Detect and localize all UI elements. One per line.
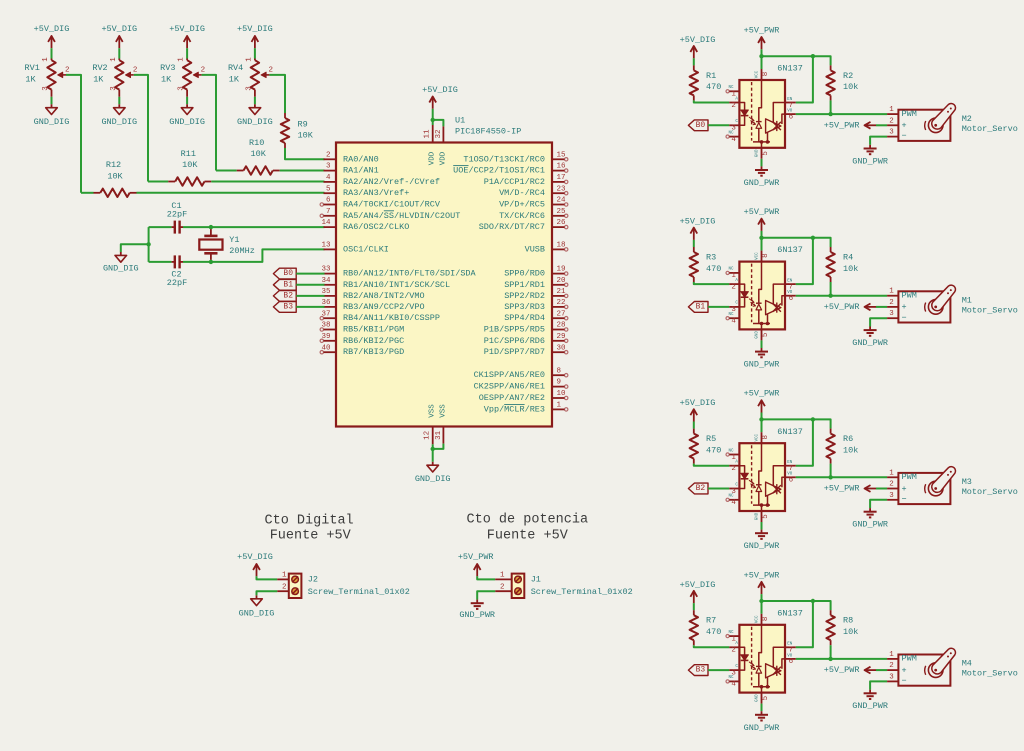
svg-text:CK1SPP/AN5/RE0: CK1SPP/AN5/RE0 [474,370,545,380]
svg-text:GND: GND [755,149,759,157]
svg-text:470: 470 [706,627,721,637]
wire [796,658,887,660]
wire [118,48,120,58]
svg-text:R7: R7 [706,616,716,626]
wire [66,75,81,193]
svg-text:VM/D-/RC4: VM/D-/RC4 [499,188,545,198]
wire [257,591,278,595]
svg-text:U1: U1 [455,115,465,125]
U1 pin 10 OESPP/AN7/RE2 [479,390,568,403]
svg-text:VCC: VCC [755,70,759,78]
svg-text:GND_PWR: GND_PWR [744,723,780,733]
svg-text:3: 3 [178,86,186,91]
svg-text:34: 34 [321,277,331,285]
wire [694,645,730,647]
svg-text:+5V_DIG: +5V_DIG [169,24,205,34]
svg-text:10K: 10K [251,149,267,159]
svg-text:+5V_PWR: +5V_PWR [744,207,780,217]
resistor R9 10K [281,113,314,148]
svg-text:R4: R4 [843,253,853,263]
IC U1 PIC18F4550-IP [336,143,552,427]
svg-text:GND_DIG: GND_DIG [415,474,451,484]
wire [708,306,729,308]
svg-text:GND_DIG: GND_DIG [101,117,137,127]
servo motor M4 Motor_Servo [887,648,1018,686]
power +5V_DIG [680,217,716,240]
wire [694,464,730,466]
svg-text:Y1: Y1 [229,235,239,245]
svg-text:22pF: 22pF [167,210,187,220]
svg-text:2: 2 [282,583,287,591]
svg-text:−: − [902,494,907,504]
svg-text:RA3/AN3/Vref+: RA3/AN3/Vref+ [343,188,409,198]
junction [759,54,763,58]
svg-text:EN: EN [787,643,793,647]
svg-text:1: 1 [246,57,254,62]
svg-text:J2: J2 [308,575,318,585]
U1 pin 23 VM/D-/RC4 [499,185,568,198]
wire [693,240,695,247]
svg-text:10k: 10k [843,627,858,637]
wire [761,704,763,712]
svg-text:7: 7 [326,208,331,216]
svg-text:2: 2 [731,102,736,110]
power +5V_DIG [680,398,716,421]
power +5V_DIG [101,24,137,48]
svg-text:16: 16 [557,163,567,171]
svg-text:EN: EN [787,461,793,465]
svg-text:8: 8 [762,72,770,77]
U1 pin 13 OSC1/CLKI [321,242,388,255]
junction [811,417,815,421]
svg-text:RB6/KBI2/PGC: RB6/KBI2/PGC [343,336,404,346]
svg-text:−: − [902,131,907,141]
ground GND_PWR [852,690,888,711]
svg-text:B0: B0 [283,269,293,278]
svg-text:8: 8 [762,253,770,258]
U1 pin 8 CK1SPP/AN5/RE0 [474,367,568,380]
wire [870,681,887,689]
wire [762,56,831,65]
ground GND_DIG [239,595,275,618]
wire [216,170,237,172]
ground GND_PWR [852,327,888,348]
wire [796,238,813,284]
wire [761,238,763,251]
wire [693,422,695,429]
U1 pin 17 P1A/CCP1/RC2 [484,174,568,187]
net label B1 [273,279,296,290]
svg-text:1: 1 [557,402,562,410]
potentiometer RV2 1K [92,57,137,97]
svg-text:6N137: 6N137 [777,608,803,618]
svg-text:+: + [902,665,907,675]
svg-text:B1: B1 [283,280,293,289]
svg-text:5: 5 [762,332,770,337]
svg-text:R3: R3 [706,253,716,263]
svg-text:RB3/AN9/CCP2/VPO: RB3/AN9/CCP2/VPO [343,302,425,312]
U1 pin 4 RA2/AN2/Vref-/CVref [324,174,440,187]
svg-text:30: 30 [557,344,567,352]
wire [830,100,832,114]
wire [477,576,495,579]
svg-text:+5V_PWR: +5V_PWR [458,552,494,562]
svg-text:VO: VO [787,473,793,477]
svg-text:+5V_DIG: +5V_DIG [422,85,458,95]
servo motor M3 Motor_Servo [887,467,1018,505]
svg-text:GND_DIG: GND_DIG [169,117,205,127]
power +5V_DIG [237,552,273,576]
wire [761,231,763,238]
junction [811,54,815,58]
power +5V_PWR [458,552,494,576]
power +5V_PWR [824,665,876,675]
svg-text:P1D/SPP7/RD7: P1D/SPP7/RD7 [484,347,545,357]
svg-text:R9: R9 [298,119,308,129]
power +5V_DIG [680,580,716,603]
svg-text:OESPP/AN7/RE2: OESPP/AN7/RE2 [479,393,545,403]
svg-text:+: + [902,121,907,131]
wire [183,249,325,262]
U1 pin 5 RA3/AN3/Vref+ [324,185,410,198]
wire [296,295,324,297]
svg-text:2: 2 [889,481,894,489]
svg-text:+5V_DIG: +5V_DIG [237,24,273,34]
svg-text:NC: NC [728,495,734,499]
wire [81,192,94,194]
wire [296,284,324,286]
svg-text:31: 31 [435,430,443,440]
resistor R5 470 [690,429,722,464]
svg-text:5: 5 [762,695,770,700]
U1 pin 11 VDD [423,125,436,165]
svg-text:5: 5 [326,185,331,193]
wire [477,591,495,599]
svg-text:2: 2 [889,117,894,125]
svg-text:+5V_DIG: +5V_DIG [680,35,716,45]
svg-text:Fuente +5V: Fuente +5V [270,529,352,544]
svg-text:3: 3 [889,492,894,500]
junction [759,236,763,240]
wire [830,645,832,659]
svg-text:Screw_Terminal_01x02: Screw_Terminal_01x02 [531,587,633,597]
svg-text:RV2: RV2 [92,63,107,73]
svg-text:20: 20 [557,277,567,285]
potentiometer RV3 1K [160,57,205,97]
power +5V_DIG [237,24,273,48]
wire [694,282,730,284]
svg-text:32: 32 [435,129,443,138]
wire [280,170,325,172]
U1 pin 32 VDD [435,126,448,165]
svg-text:VDD: VDD [429,151,437,165]
junction [209,225,213,229]
svg-text:4: 4 [731,318,736,326]
svg-text:RB0/AN12/INT0/FLT0/SDI/SDA: RB0/AN12/INT0/FLT0/SDI/SDA [343,269,477,279]
U1 pin 26 SDO/RX/DT/RC7 [479,219,568,232]
U1 pin 14 RA6/OSC2/CLKO [321,219,409,232]
wire [876,669,887,671]
svg-text:M3: M3 [962,477,972,487]
junction [146,242,150,246]
svg-text:GND_PWR: GND_PWR [852,338,888,348]
svg-text:Fuente +5V: Fuente +5V [487,529,569,544]
svg-text:RV1: RV1 [25,63,40,73]
power +5V_PWR [824,120,876,130]
resistor R6 10k [826,429,858,464]
svg-text:VCC: VCC [755,252,759,260]
resistor R2 10k [826,65,858,100]
U1 pin 22 SPP3/RD3 [504,299,568,312]
svg-text:25: 25 [557,208,567,216]
svg-text:1: 1 [282,572,287,580]
svg-text:14: 14 [321,219,331,227]
wire [830,464,832,478]
wire [708,669,729,671]
power +5V_DIG [169,24,205,48]
svg-text:35: 35 [321,288,331,296]
svg-text:2: 2 [201,66,206,74]
svg-text:T1OSO/T13CKI/RC0: T1OSO/T13CKI/RC0 [463,154,545,164]
junction [431,118,435,122]
wire [296,306,324,308]
wire [693,603,695,610]
svg-text:1: 1 [889,106,894,114]
svg-text:40: 40 [321,344,331,352]
wire [708,124,729,126]
svg-text:SPP1/RD1: SPP1/RD1 [504,280,545,290]
svg-text:EN: EN [787,98,793,102]
svg-text:22: 22 [557,299,566,307]
U1 pin 39 RB6/KBI2/PGC [320,333,404,346]
power +5V_PWR [744,207,780,231]
svg-text:B3: B3 [696,666,706,675]
svg-text:2: 2 [731,647,736,655]
svg-text:B2: B2 [696,484,706,493]
svg-text:NC: NC [728,268,734,272]
svg-text:1K: 1K [161,75,172,85]
wire [761,594,763,601]
U1 pin 25 TX/CK/RC6 [499,208,568,221]
svg-text:M2: M2 [962,114,972,124]
svg-text:3: 3 [889,129,894,137]
wire [269,75,285,113]
svg-text:+: + [902,302,907,312]
U1 pin 12 VSS [423,404,436,445]
svg-text:GND_PWR: GND_PWR [744,178,780,188]
svg-text:SDO/RX/DT/RC7: SDO/RX/DT/RC7 [479,222,545,232]
junction [828,112,832,116]
ground GND_PWR [459,600,495,620]
svg-text:4: 4 [731,681,736,689]
svg-text:NC: NC [728,86,734,90]
svg-text:33: 33 [321,266,331,274]
wire [876,124,887,126]
junction [828,475,832,479]
svg-text:6: 6 [789,658,794,666]
svg-text:6N137: 6N137 [777,427,803,437]
junction [431,447,435,451]
svg-text:GND_DIG: GND_DIG [237,117,273,127]
svg-text:GND_PWR: GND_PWR [852,701,888,711]
wire [118,97,120,105]
svg-text:24: 24 [557,197,567,205]
svg-text:3: 3 [326,163,331,171]
ground GND_PWR [744,166,780,188]
svg-text:NC: NC [728,313,734,317]
note: Cto de potencia / Fuente +5V [467,513,589,544]
ground GND_PWR [744,530,780,552]
svg-text:+5V_PWR: +5V_PWR [824,484,860,494]
svg-text:1K: 1K [229,75,240,85]
svg-text:Vpp/MCLR/RE3: Vpp/MCLR/RE3 [484,404,545,414]
net label B3 [273,302,296,313]
power +5V_PWR [744,26,780,50]
svg-text:+5V_DIG: +5V_DIG [34,24,70,34]
svg-text:4: 4 [731,136,736,144]
svg-text:9: 9 [557,379,562,387]
servo motor M1 Motor_Servo [887,285,1018,323]
ground GND_DIG [169,104,205,127]
svg-text:J1: J1 [531,575,541,585]
svg-text:P1B/SPP5/RD5: P1B/SPP5/RD5 [484,325,545,335]
junction [759,599,763,603]
svg-text:4: 4 [326,174,331,182]
svg-text:GND: GND [755,694,759,702]
svg-text:PWM: PWM [902,472,917,482]
U1 pin 27 SPP4/RD4 [504,310,568,323]
wire [708,488,729,490]
wire [432,120,434,125]
svg-text:2: 2 [889,299,894,307]
svg-text:B0: B0 [696,121,706,130]
wire [761,56,763,69]
svg-text:1: 1 [110,57,118,62]
svg-text:SPP3/RD3: SPP3/RD3 [504,302,545,312]
svg-text:38: 38 [321,322,330,330]
svg-text:VSS: VSS [429,404,437,418]
svg-text:VO: VO [787,110,793,114]
junction [209,260,213,264]
wire [761,413,763,420]
junction [811,236,815,240]
resistor R7 470 [690,610,722,645]
svg-text:13: 13 [321,242,331,250]
svg-text:VSS: VSS [439,404,447,418]
svg-text:8: 8 [762,435,770,440]
svg-text:NC: NC [728,631,734,635]
potentiometer RV1 1K [25,57,70,97]
wire [149,261,172,263]
wire [148,227,150,262]
wire [285,148,325,159]
svg-text:+5V_PWR: +5V_PWR [824,665,860,675]
wire [186,48,188,58]
net label B2 [688,483,708,494]
svg-text:PWM: PWM [902,291,917,301]
wire [761,49,763,56]
net label B1 [688,302,708,313]
svg-text:11: 11 [423,129,431,139]
resistor R12 10K [94,160,137,197]
svg-text:Cto Digital: Cto Digital [265,514,354,529]
wire [149,226,172,228]
ground GND_PWR [852,145,888,166]
svg-text:21: 21 [557,288,567,296]
wire [870,137,887,145]
svg-text:M4: M4 [962,659,972,669]
U1 pin 1 Vpp/MCLR/RE3 [484,402,568,415]
svg-text:Motor_Servo: Motor_Servo [962,669,1018,679]
ground GND_DIG [237,104,273,127]
svg-text:+5V_DIG: +5V_DIG [680,580,716,590]
potentiometer RV4 1K [228,57,273,97]
optocoupler 6N137 (B2 channel) [726,427,803,522]
svg-text:10: 10 [557,390,567,398]
svg-text:GND_PWR: GND_PWR [459,610,495,620]
svg-text:39: 39 [321,333,330,341]
svg-text:VCC: VCC [755,615,759,623]
svg-text:P1A/CCP1/RC2: P1A/CCP1/RC2 [484,177,545,187]
capacitor C1 22pF [167,201,187,234]
U1 pin 29 P1C/SPP6/RD6 [484,333,568,346]
U1 reference and value labels [455,115,521,136]
svg-text:PWM: PWM [902,654,917,664]
svg-text:RB5/KBI1/PGM: RB5/KBI1/PGM [343,325,404,335]
U1 pin 15 T1OSO/T13CKI/RC0 [463,151,568,164]
wire [137,192,325,194]
ground GND_DIG [415,462,451,484]
U1 pin 2 RA0/AN0 [324,151,379,164]
svg-text:RV3: RV3 [160,63,175,73]
svg-text:B2: B2 [283,291,293,300]
svg-text:RA4/T0CKI/C1OUT/RCV: RA4/T0CKI/C1OUT/RCV [343,200,441,210]
svg-text:470: 470 [706,264,721,274]
svg-text:2: 2 [731,465,736,473]
svg-text:OSC1/CLKI: OSC1/CLKI [343,244,389,254]
svg-text:19: 19 [557,266,566,274]
wire [148,181,168,183]
svg-text:RA0/AN0: RA0/AN0 [343,154,379,164]
svg-text:Screw_Terminal_01x02: Screw_Terminal_01x02 [308,587,410,597]
U1 pin 38 RB5/KBI1/PGM [320,322,404,335]
svg-text:RA2/AN2/Vref-/CVref: RA2/AN2/Vref-/CVref [343,177,440,187]
U1 pin 9 CK2SPP/AN6/RE1 [474,379,568,392]
svg-text:+5V_DIG: +5V_DIG [101,24,137,34]
wire [761,340,763,348]
svg-text:GND_DIG: GND_DIG [103,264,139,274]
svg-text:VO: VO [787,654,793,658]
svg-text:1: 1 [42,57,50,62]
svg-text:GND_PWR: GND_PWR [744,360,780,370]
ground GND_PWR [852,508,888,529]
wire [432,449,434,462]
power +5V_DIG [422,85,458,109]
resistor R3 470 [690,247,722,282]
svg-text:R5: R5 [706,434,716,444]
svg-text:+5V_PWR: +5V_PWR [824,120,860,130]
svg-text:+5V_PWR: +5V_PWR [824,302,860,312]
svg-text:8: 8 [557,367,562,375]
svg-text:RA1/AN1: RA1/AN1 [343,166,379,176]
U1 pin 16 UOE/CCP2/T1OSI/RC1 [453,163,568,176]
svg-text:GND_DIG: GND_DIG [34,117,70,127]
wire [186,97,188,105]
svg-text:RA6/OSC2/CLKO: RA6/OSC2/CLKO [343,222,409,232]
svg-text:GND_PWR: GND_PWR [744,541,780,551]
svg-text:6: 6 [789,113,794,121]
wire [693,58,695,65]
